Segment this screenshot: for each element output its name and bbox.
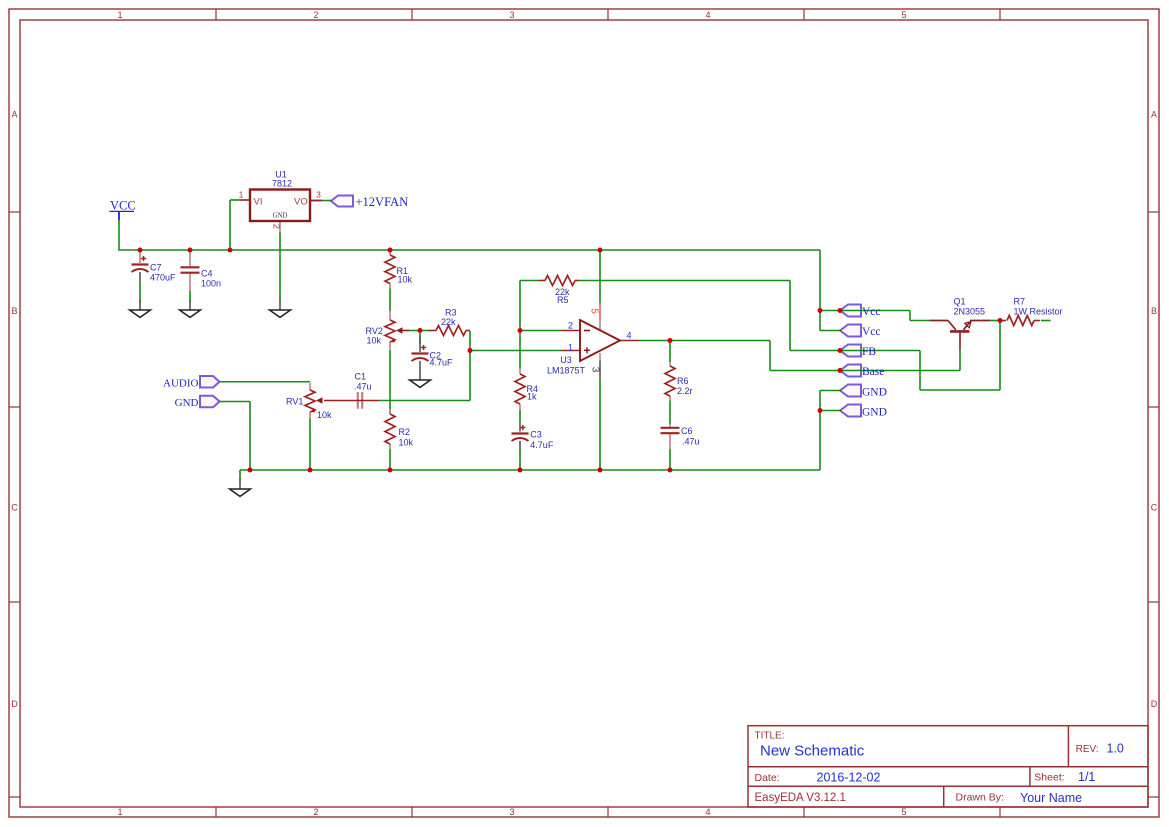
svg-text:B: B <box>1151 306 1157 316</box>
svg-text:R2: R2 <box>399 427 411 437</box>
svg-text:GND: GND <box>862 407 887 419</box>
svg-text:10k: 10k <box>398 275 413 285</box>
svg-text:1/1: 1/1 <box>1078 770 1095 784</box>
svg-text:VI: VI <box>254 197 263 208</box>
svg-text:C7: C7 <box>150 263 162 273</box>
svg-text:3: 3 <box>509 10 514 20</box>
svg-text:C6: C6 <box>681 426 693 436</box>
svg-text:Q1: Q1 <box>954 297 966 307</box>
svg-text:.47u: .47u <box>682 437 700 447</box>
svg-text:4: 4 <box>705 807 710 817</box>
svg-text:Vcc: Vcc <box>862 306 881 318</box>
svg-text:AUDIO: AUDIO <box>163 377 198 389</box>
svg-text:Sheet:: Sheet: <box>1034 772 1064 784</box>
svg-text:10k: 10k <box>399 438 414 448</box>
svg-text:2: 2 <box>271 224 282 229</box>
svg-text:A: A <box>11 110 17 120</box>
svg-text:R7: R7 <box>1014 297 1026 307</box>
svg-text:1: 1 <box>239 190 244 200</box>
svg-text:4: 4 <box>627 331 632 341</box>
svg-text:R5: R5 <box>557 295 569 305</box>
svg-text:2.2r: 2.2r <box>677 386 693 396</box>
svg-text:4: 4 <box>705 10 710 20</box>
svg-text:2: 2 <box>313 807 318 817</box>
svg-text:3: 3 <box>509 807 514 817</box>
svg-text:Vcc: Vcc <box>862 326 881 338</box>
svg-text:5: 5 <box>901 807 906 817</box>
svg-text:7812: 7812 <box>272 179 292 189</box>
svg-text:Your Name: Your Name <box>1020 791 1082 805</box>
svg-text:5: 5 <box>589 308 600 314</box>
svg-text:A: A <box>1151 110 1157 120</box>
svg-text:2016-12-02: 2016-12-02 <box>817 770 881 784</box>
svg-text:1k: 1k <box>527 392 537 402</box>
svg-text:New Schematic: New Schematic <box>760 742 865 759</box>
svg-text:3: 3 <box>590 367 601 373</box>
svg-text:5: 5 <box>901 10 906 20</box>
svg-text:4.7uF: 4.7uF <box>530 440 554 450</box>
svg-text:U3: U3 <box>560 355 572 365</box>
svg-text:TITLE:: TITLE: <box>755 731 785 742</box>
svg-text:100n: 100n <box>201 279 221 289</box>
svg-text:10k: 10k <box>367 336 382 346</box>
svg-text:22k: 22k <box>441 317 456 327</box>
svg-text:2: 2 <box>568 321 573 331</box>
svg-text:1: 1 <box>568 342 573 352</box>
svg-text:GND: GND <box>862 387 887 399</box>
svg-text:R3: R3 <box>445 308 457 318</box>
svg-text:GND: GND <box>175 397 199 409</box>
svg-text:4.7uF: 4.7uF <box>430 358 454 368</box>
svg-text:3: 3 <box>316 190 321 200</box>
svg-text:D: D <box>1151 699 1158 709</box>
svg-text:Base: Base <box>862 366 884 378</box>
svg-text:R6: R6 <box>677 376 689 386</box>
svg-text:C: C <box>1151 503 1158 513</box>
svg-text:2: 2 <box>313 10 318 20</box>
svg-text:1W Resistor: 1W Resistor <box>1014 307 1063 317</box>
svg-text:REV:: REV: <box>1076 744 1099 755</box>
svg-text:Drawn By:: Drawn By: <box>956 792 1004 804</box>
svg-text:+12VFAN: +12VFAN <box>356 195 409 209</box>
svg-text:10k: 10k <box>317 410 332 420</box>
svg-text:C: C <box>11 503 18 513</box>
svg-text:2N3055: 2N3055 <box>954 307 986 317</box>
svg-text:1: 1 <box>117 10 122 20</box>
svg-text:C1: C1 <box>355 372 367 382</box>
svg-text:D: D <box>11 699 18 709</box>
svg-text:EasyEDA V3.12.1: EasyEDA V3.12.1 <box>755 792 846 804</box>
svg-text:RV2: RV2 <box>366 326 383 336</box>
svg-text:.47u: .47u <box>354 382 372 392</box>
svg-text:1: 1 <box>117 807 122 817</box>
svg-text:Date:: Date: <box>755 772 780 784</box>
svg-text:470uF: 470uF <box>150 273 176 283</box>
svg-text:VO: VO <box>294 197 308 208</box>
svg-text:C4: C4 <box>201 269 213 279</box>
svg-text:GND: GND <box>273 213 288 220</box>
svg-text:LM1875T: LM1875T <box>547 366 586 376</box>
svg-text:1.0: 1.0 <box>1107 741 1124 755</box>
svg-text:B: B <box>11 306 17 316</box>
svg-text:VCC: VCC <box>110 199 136 213</box>
svg-text:FB: FB <box>862 346 876 358</box>
svg-text:C3: C3 <box>530 430 542 440</box>
svg-text:RV1: RV1 <box>286 397 303 407</box>
